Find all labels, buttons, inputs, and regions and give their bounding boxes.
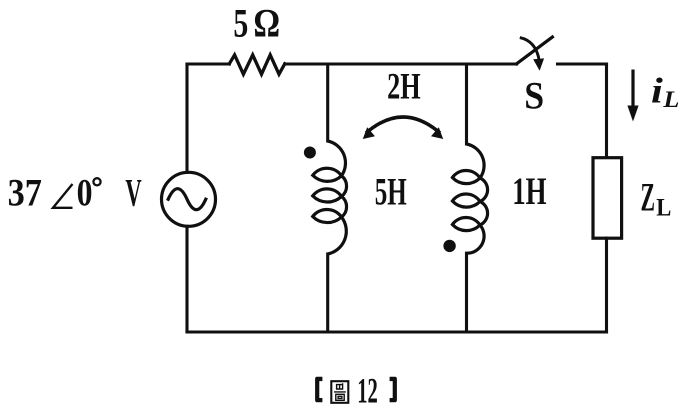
svg-text:Z: Z bbox=[641, 174, 656, 219]
svg-text:5H: 5H bbox=[375, 170, 407, 213]
load Z_L box bbox=[593, 158, 622, 239]
inductor L2 (1H) turn connector 1 bbox=[480, 178, 488, 202]
inductor L2 (1H) loop 2 bbox=[452, 194, 480, 207]
AC source sine symbol bbox=[168, 189, 206, 210]
wire left vertical upper bbox=[185, 64, 188, 172]
wire right vertical lower bbox=[605, 238, 608, 332]
wire top right horizontal after switch bbox=[558, 62, 607, 65]
switch S blade bbox=[517, 37, 553, 64]
svg-text:L: L bbox=[662, 87, 679, 112]
svg-text:5: 5 bbox=[233, 1, 248, 46]
inductor L1 (5H) turn connector 2 bbox=[342, 196, 347, 217]
degree symbol bbox=[93, 178, 100, 185]
inductor L1 (5H) coil exit arc bbox=[328, 217, 347, 254]
wire left vertical lower bbox=[185, 226, 188, 332]
wire right vertical upper bbox=[605, 64, 608, 158]
svg-text:1H: 1H bbox=[512, 170, 546, 213]
wire bottom horizontal bbox=[187, 330, 607, 333]
caption opening bracket bbox=[315, 377, 322, 403]
svg-text:Ω: Ω bbox=[253, 1, 280, 46]
wire branch L1 vertical upper bbox=[326, 64, 329, 141]
inductor L2 (1H) coil entry arc bbox=[467, 144, 485, 178]
resistor R (5 ohm) zigzag bbox=[229, 55, 284, 74]
inductor L1 (5H) coil entry arc bbox=[328, 141, 346, 176]
angle symbol bbox=[53, 184, 73, 208]
svg-text:12: 12 bbox=[357, 371, 378, 407]
inductor L1 (5H) turn connector 1 bbox=[342, 176, 347, 197]
dot polarity mark of L2 bbox=[443, 240, 455, 252]
mutual coupling arrow 2H bbox=[363, 117, 443, 139]
inductor L2 (1H) turn connector 2 bbox=[480, 202, 488, 226]
inductor L2 (1H) coil exit arc bbox=[467, 225, 485, 253]
inductor L2 (1H) loop 1 bbox=[452, 171, 480, 184]
AC source VS circle bbox=[162, 172, 216, 226]
svg-text:37: 37 bbox=[8, 171, 42, 214]
svg-text:2H: 2H bbox=[387, 66, 421, 107]
wire branch L1 vertical lower bbox=[326, 254, 329, 332]
svg-text:L: L bbox=[656, 195, 671, 222]
wire top middle horizontal bbox=[285, 62, 517, 65]
wire top-left horizontal bbox=[187, 62, 229, 65]
svg-text:i: i bbox=[651, 71, 663, 111]
switch closing arc arrow bbox=[520, 38, 544, 71]
wire branch L2 vertical lower bbox=[465, 253, 468, 332]
dot polarity mark of L1 bbox=[304, 147, 316, 159]
inductor L1 (5H) loop 2 bbox=[313, 189, 342, 202]
inductor L1 (5H) loop 3 bbox=[313, 209, 342, 222]
svg-text:0: 0 bbox=[77, 171, 93, 214]
inductor L2 (1H) loop 3 bbox=[452, 218, 480, 231]
svg-text:V: V bbox=[125, 172, 141, 215]
svg-text:S: S bbox=[524, 75, 544, 118]
inductor L1 (5H) loop 1 bbox=[313, 168, 342, 181]
wire branch L2 vertical upper bbox=[465, 64, 468, 144]
caption character tu (figure) bbox=[331, 381, 348, 403]
load current arrow iL bbox=[627, 70, 638, 122]
caption closing bracket bbox=[390, 377, 397, 403]
